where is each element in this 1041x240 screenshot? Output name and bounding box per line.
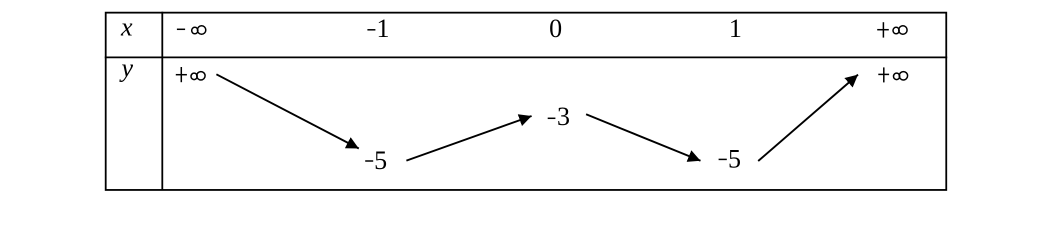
svg-text:x: x (120, 12, 133, 41)
x value: -1 (minus stroke) (367, 29, 375, 31)
increasing arrow 2 (406, 116, 531, 161)
x value: minus infinity (minus stroke) (177, 28, 185, 30)
y limit at left: plus infinity (infinity lobes) (191, 72, 205, 80)
svg-text:3: 3 (557, 102, 570, 131)
decreasing arrow 1 (216, 74, 358, 148)
y limit at right: plus infinity (infinity lobes) (894, 72, 908, 80)
y minimum -5 left (minus stroke) (365, 160, 373, 162)
svg-text:5: 5 (728, 144, 741, 173)
y limit at left: plus infinity (plus strokes) (176, 74, 187, 76)
svg-text:5: 5 (374, 146, 387, 175)
svg-text:0: 0 (549, 14, 562, 43)
svg-text:y: y (119, 53, 134, 82)
y minimum -5 right (minus stroke) (719, 158, 727, 160)
increasing arrow 4 (758, 75, 858, 161)
y local maximum -3 (minus stroke) (548, 117, 556, 119)
x value: plus infinity (infinity lobes) (893, 26, 907, 34)
decreasing arrow 3 (586, 114, 700, 161)
x value: plus infinity (plus strokes) (877, 29, 889, 31)
vertical divider between label column and value area (161, 12, 163, 191)
horizontal divider between x-row and y-row (105, 56, 947, 58)
svg-text:1: 1 (376, 14, 389, 43)
x value: minus infinity (infinity lobes) (192, 26, 206, 34)
svg-text:1: 1 (729, 14, 742, 43)
y limit at right: plus infinity (plus strokes) (878, 73, 889, 75)
table outer frame (106, 13, 947, 190)
